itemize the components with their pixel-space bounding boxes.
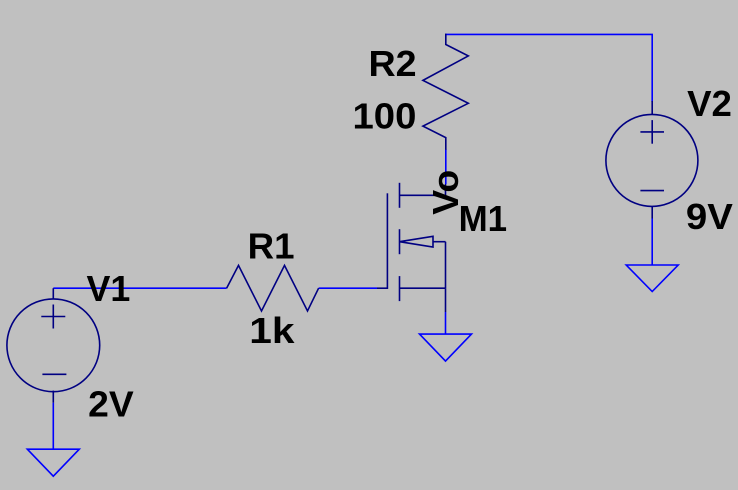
svg-text:R2: R2 xyxy=(369,43,417,84)
wire M1 source to ground xyxy=(445,312,447,334)
ground (M1 source) xyxy=(420,334,472,361)
svg-text:V2: V2 xyxy=(687,83,732,124)
svg-text:Vo: Vo xyxy=(425,170,466,215)
svg-text:2V: 2V xyxy=(88,383,134,424)
wire R1 right to M1 gate xyxy=(319,287,377,289)
transistor M1 (NMOS) xyxy=(377,183,446,312)
svg-text:R1: R1 xyxy=(248,225,295,266)
svg-text:100: 100 xyxy=(353,95,417,136)
svg-text:V1: V1 xyxy=(87,268,131,309)
voltage source V2 xyxy=(606,101,698,219)
resistor R2 xyxy=(423,34,468,150)
wire V1 bottom to ground xyxy=(52,403,54,450)
ground (V2) xyxy=(626,265,678,292)
voltage source V1 xyxy=(7,288,100,403)
wire V2 bottom to ground xyxy=(651,219,653,266)
resistor R1 xyxy=(227,265,319,311)
wire R2 top to V2 top xyxy=(445,34,652,102)
ground (V1) xyxy=(27,449,79,476)
svg-text:9V: 9V xyxy=(686,196,733,237)
svg-text:1k: 1k xyxy=(249,310,295,351)
wire V1 top to R1 left xyxy=(53,287,226,289)
wire R2 bottom to M1 drain (node Vo) xyxy=(445,149,447,184)
